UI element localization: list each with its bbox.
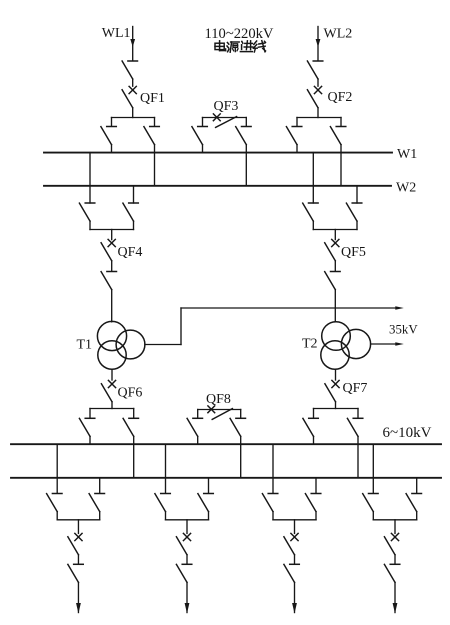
svg-text:W1: W1 xyxy=(397,147,417,162)
disconnector feeder 4 outgoing xyxy=(384,564,399,612)
bus 6-10kV section I xyxy=(11,443,441,445)
disconnector below QF5 xyxy=(325,272,340,322)
svg-text:QF7: QF7 xyxy=(343,381,368,396)
circuit breaker QF1 xyxy=(122,86,136,117)
disconnector feeder 4 leg from bus I xyxy=(363,444,378,520)
circuit breaker feeder 3 xyxy=(284,533,298,564)
label WL1 incoming line xyxy=(102,26,131,41)
label W1 xyxy=(397,147,417,162)
circuit breaker feeder 1 xyxy=(68,533,82,564)
wire QF1 split header xyxy=(112,117,155,119)
bus W1 xyxy=(44,152,392,154)
disconnector on WL2 line xyxy=(307,61,322,86)
disconnector feeder 2 outgoing xyxy=(176,564,191,612)
disconnector QF8 left to 6-10kV bus I xyxy=(187,410,202,445)
label QF1 xyxy=(140,91,165,106)
svg-text:QF2: QF2 xyxy=(328,90,353,105)
wire feeder 1 outgoing down arrow xyxy=(76,603,81,614)
svg-text:QF1: QF1 xyxy=(140,91,165,106)
circuit breaker QF8 bus tie xyxy=(198,406,241,420)
disconnector feeder 4 leg from bus II xyxy=(406,478,421,520)
disconnector feeder 1 outgoing xyxy=(68,564,83,612)
wire WL2 incoming with down arrow xyxy=(316,27,321,61)
svg-text:T2: T2 xyxy=(302,337,318,352)
wire feeder 2 outgoing down arrow xyxy=(185,603,190,614)
svg-text:110~220kV: 110~220kV xyxy=(205,26,274,42)
disconnector feeder 3 leg from bus I xyxy=(262,444,277,520)
label 35kV xyxy=(389,323,418,337)
wire feeder 3 merge header xyxy=(273,520,316,534)
svg-text:QF4: QF4 xyxy=(118,245,143,260)
circuit breaker QF6 xyxy=(101,380,115,408)
wire T2 secondary to QF7 xyxy=(335,369,337,380)
svg-text:QF6: QF6 xyxy=(118,386,143,401)
disconnector QF5 leg from bus W2 xyxy=(346,186,361,230)
circuit breaker feeder 4 xyxy=(384,533,398,564)
wire feeder 3 outgoing down arrow xyxy=(292,603,297,614)
circuit breaker feeder 2 xyxy=(176,533,190,564)
disconnector QF2 branch to bus W2 xyxy=(330,118,345,186)
label QF2 xyxy=(328,90,353,105)
disconnector QF7 branch to 6-10kV bus I xyxy=(303,409,318,445)
disconnector QF7 branch to 6-10kV bus II xyxy=(347,409,362,478)
svg-text:QF3: QF3 xyxy=(214,99,239,114)
label WL2 incoming line xyxy=(324,27,353,42)
wire QF2 split header xyxy=(297,117,341,119)
disconnector feeder 1 leg from bus II xyxy=(89,478,104,520)
svg-text:WL1: WL1 xyxy=(102,26,131,41)
circuit breaker QF7 xyxy=(325,380,339,408)
bus 6-10kV section II xyxy=(11,477,441,479)
label T1 xyxy=(77,338,93,353)
disconnector QF3 right to bus W2 xyxy=(236,118,251,186)
disconnector feeder 3 leg from bus II xyxy=(305,478,320,520)
disconnector on WL1 line xyxy=(122,61,137,86)
circuit breaker QF4 xyxy=(101,239,115,271)
disconnector QF2 branch to bus W1 xyxy=(286,118,301,153)
disconnector QF4 leg from bus W2 xyxy=(123,186,138,230)
disconnector QF6 branch to 6-10kV bus II xyxy=(123,409,138,478)
disconnector below QF4 xyxy=(101,272,116,322)
wire T1 tertiary 35kV feeder with arrow xyxy=(145,306,404,344)
disconnector QF3 left to bus W1 xyxy=(192,118,207,153)
label QF8 xyxy=(206,392,231,407)
disconnector feeder 2 leg from bus I xyxy=(155,444,170,520)
wire T2 tertiary 35kV arrow xyxy=(371,342,404,346)
disconnector QF6 branch to 6-10kV bus I xyxy=(79,409,94,445)
label QF5 xyxy=(341,245,366,260)
wire feeder 4 merge header xyxy=(373,520,416,534)
label 电源进线 (power incoming line) drawn strokes xyxy=(215,41,266,53)
disconnector feeder 3 outgoing xyxy=(284,564,299,612)
circuit breaker QF2 xyxy=(307,86,321,117)
wire WL1 incoming with down arrow xyxy=(130,27,135,61)
disconnector QF4 leg from bus W1 xyxy=(79,153,94,230)
label QF7 xyxy=(343,381,368,396)
svg-text:WL2: WL2 xyxy=(324,27,353,42)
label 6~10kV xyxy=(383,425,432,441)
label QF3 xyxy=(214,99,239,114)
disconnector feeder 2 leg from bus II xyxy=(198,478,213,520)
bus W2 xyxy=(44,185,391,187)
circuit breaker QF3 bus tie xyxy=(203,114,247,128)
transformer T1 (three winding) xyxy=(97,321,144,369)
circuit breaker QF5 xyxy=(325,239,339,271)
wire QF7 split header xyxy=(314,408,359,410)
disconnector feeder 1 leg from bus I xyxy=(47,444,62,520)
wire QF5 merge header xyxy=(313,230,357,240)
wire feeder 4 outgoing down arrow xyxy=(393,603,398,614)
wire T1 secondary to QF6 xyxy=(111,369,113,380)
transformer T2 (three winding) xyxy=(321,322,371,369)
disconnector QF5 leg from bus W1 xyxy=(303,153,318,230)
wire QF4 merge header xyxy=(90,230,134,240)
svg-text:W2: W2 xyxy=(396,181,416,196)
label QF4 xyxy=(118,245,143,260)
wire feeder 2 merge header xyxy=(166,520,209,534)
wire QF6 split header xyxy=(90,408,134,410)
svg-text:QF8: QF8 xyxy=(206,392,231,407)
svg-text:35kV: 35kV xyxy=(389,323,418,337)
disconnector QF8 right to 6-10kV bus II xyxy=(230,410,245,478)
label 110~220kV power source title xyxy=(205,26,274,42)
label T2 xyxy=(302,337,318,352)
disconnector QF1 branch to bus W2 xyxy=(144,118,159,186)
label QF6 xyxy=(118,386,143,401)
disconnector QF1 branch to bus W1 xyxy=(101,118,116,153)
svg-text:T1: T1 xyxy=(77,338,93,353)
svg-text:6~10kV: 6~10kV xyxy=(383,425,432,441)
wire feeder 1 merge header xyxy=(57,520,99,534)
svg-text:QF5: QF5 xyxy=(341,245,366,260)
label W2 xyxy=(396,181,416,196)
